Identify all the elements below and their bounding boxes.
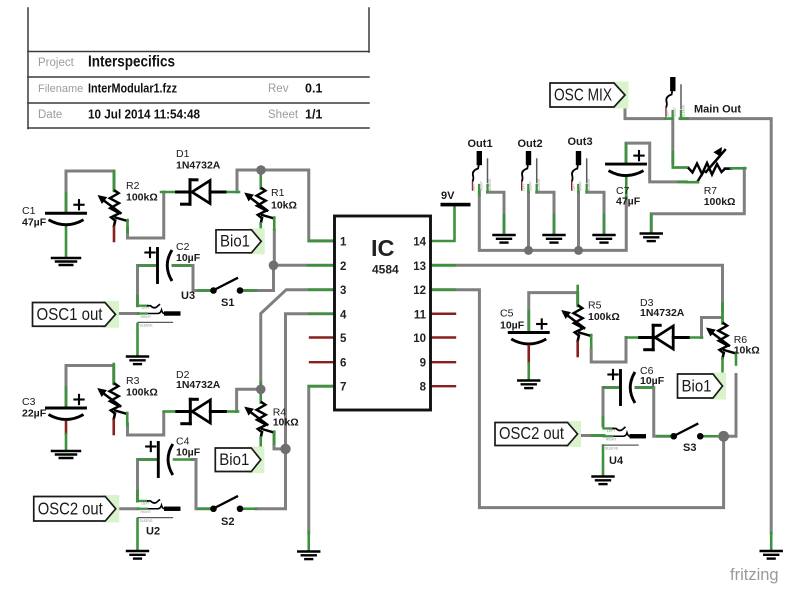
svg-text:LEFT: LEFT — [472, 183, 476, 191]
svg-text:2: 2 — [340, 261, 346, 273]
svg-text:10kΩ: 10kΩ — [271, 200, 297, 212]
svg-text:10µF: 10µF — [500, 320, 525, 332]
svg-text:5: 5 — [340, 333, 347, 345]
svg-text:LEFT: LEFT — [666, 109, 670, 117]
svg-text:Bio1: Bio1 — [220, 232, 250, 250]
svg-text:0.1: 0.1 — [305, 82, 322, 96]
svg-text:LEFT: LEFT — [142, 306, 150, 310]
svg-text:S1: S1 — [221, 297, 234, 309]
svg-text:fritzing: fritzing — [730, 566, 779, 584]
svg-text:C3: C3 — [22, 396, 36, 408]
svg-text:4: 4 — [340, 309, 347, 321]
svg-text:Filename: Filename — [38, 83, 83, 95]
svg-text:100kΩ: 100kΩ — [704, 196, 736, 208]
svg-text:SLEEVE: SLEEVE — [681, 105, 685, 117]
svg-text:SLEEVE: SLEEVE — [488, 179, 492, 191]
svg-text:11: 11 — [414, 309, 427, 321]
svg-text:47µF: 47µF — [22, 217, 47, 229]
svg-text:RIGHT: RIGHT — [529, 181, 533, 191]
svg-text:OSC2 out: OSC2 out — [499, 423, 564, 443]
svg-text:1N4732A: 1N4732A — [640, 307, 685, 319]
svg-text:47µF: 47µF — [616, 196, 641, 208]
svg-text:Project: Project — [38, 57, 75, 69]
svg-text:C1: C1 — [22, 205, 36, 217]
svg-text:IC: IC — [371, 235, 395, 261]
svg-text:OSC MIX: OSC MIX — [554, 85, 612, 105]
svg-text:12: 12 — [413, 285, 426, 297]
svg-text:9: 9 — [420, 358, 426, 370]
svg-text:10kΩ: 10kΩ — [273, 417, 299, 429]
svg-text:100kΩ: 100kΩ — [126, 387, 158, 399]
svg-text:R1: R1 — [271, 187, 285, 199]
svg-text:13: 13 — [413, 261, 426, 273]
svg-text:1: 1 — [340, 237, 347, 249]
svg-text:RIGHT: RIGHT — [606, 438, 617, 442]
svg-text:D1: D1 — [176, 148, 190, 160]
svg-text:Main Out: Main Out — [694, 104, 741, 116]
svg-text:S3: S3 — [683, 442, 696, 454]
svg-text:10 Jul 2014 11:54:48: 10 Jul 2014 11:54:48 — [88, 108, 200, 122]
svg-text:100kΩ: 100kΩ — [126, 192, 158, 204]
svg-text:RIGHT: RIGHT — [141, 315, 152, 319]
svg-text:RIGHT: RIGHT — [579, 181, 583, 191]
svg-text:10: 10 — [413, 333, 426, 345]
svg-text:InterModular1.fzz: InterModular1.fzz — [88, 82, 177, 96]
svg-text:OSC1 out: OSC1 out — [37, 304, 103, 324]
svg-text:R2: R2 — [126, 180, 140, 192]
svg-text:Sheet: Sheet — [268, 109, 299, 121]
svg-text:10µF: 10µF — [176, 252, 201, 264]
svg-text:LEFT: LEFT — [607, 429, 615, 433]
svg-text:10µF: 10µF — [640, 375, 665, 387]
svg-text:LEFT: LEFT — [142, 501, 150, 505]
svg-text:Bio1: Bio1 — [219, 451, 249, 469]
svg-text:OSC2 out: OSC2 out — [38, 499, 103, 519]
svg-text:Date: Date — [38, 109, 62, 121]
svg-text:Out2: Out2 — [518, 138, 543, 150]
svg-text:R3: R3 — [126, 375, 140, 387]
svg-text:LEFT: LEFT — [521, 183, 525, 191]
svg-text:RIGHT: RIGHT — [673, 107, 677, 117]
svg-text:Interspecifics: Interspecifics — [88, 54, 175, 71]
svg-text:Rev: Rev — [268, 83, 289, 95]
svg-text:SLEEVE: SLEEVE — [140, 324, 154, 328]
svg-text:RIGHT: RIGHT — [480, 181, 484, 191]
svg-text:14: 14 — [413, 237, 426, 249]
svg-text:7: 7 — [340, 382, 346, 394]
svg-text:Out1: Out1 — [468, 138, 493, 150]
svg-text:4584: 4584 — [372, 263, 399, 277]
svg-text:U4: U4 — [609, 455, 624, 467]
svg-text:100kΩ: 100kΩ — [588, 311, 620, 323]
svg-text:SLEEVE: SLEEVE — [537, 179, 541, 191]
svg-text:1/1: 1/1 — [305, 108, 322, 122]
svg-text:Bio1: Bio1 — [682, 378, 712, 396]
svg-text:3: 3 — [340, 285, 346, 297]
svg-text:1N4732A: 1N4732A — [176, 160, 221, 172]
svg-text:Out3: Out3 — [568, 136, 593, 148]
svg-text:SLEEVE: SLEEVE — [587, 179, 591, 191]
svg-text:U3: U3 — [181, 290, 195, 302]
svg-text:U2: U2 — [146, 526, 160, 538]
svg-text:1N4732A: 1N4732A — [176, 379, 221, 391]
svg-text:LEFT: LEFT — [571, 183, 575, 191]
svg-text:6: 6 — [340, 358, 346, 370]
svg-text:C5: C5 — [500, 308, 514, 320]
svg-text:SLEEVE: SLEEVE — [140, 519, 154, 523]
svg-text:SLEEVE: SLEEVE — [605, 446, 619, 450]
svg-text:R5: R5 — [588, 300, 602, 312]
svg-text:22µF: 22µF — [22, 408, 47, 420]
svg-text:10kΩ: 10kΩ — [734, 345, 760, 357]
svg-text:10µF: 10µF — [176, 447, 201, 459]
svg-text:RIGHT: RIGHT — [141, 510, 152, 514]
svg-text:8: 8 — [420, 382, 427, 394]
svg-text:S2: S2 — [221, 516, 234, 528]
svg-text:9V: 9V — [441, 190, 455, 202]
